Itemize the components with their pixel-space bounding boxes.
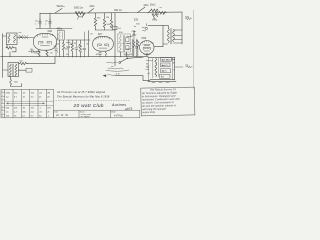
parts table bottom left	[1, 89, 54, 118]
wire left AVC drop 2	[49, 13, 51, 29]
capacitor C8 padder	[55, 44, 60, 57]
table col 1	[12, 89, 14, 118]
capacitor C6 tuning gang	[25, 36, 29, 40]
resistor R11b	[105, 51, 107, 56]
speaker enclosure left	[147, 57, 149, 81]
node SW1 contact	[127, 58, 128, 59]
svg-text:output total.: output total.	[142, 111, 156, 114]
capacitor C2 trimmer	[49, 19, 52, 27]
wire plate B line	[148, 26, 168, 47]
inductor T1 secondary	[15, 64, 17, 76]
label 6.3v squiggle	[108, 74, 115, 77]
svg-text:390Ω: 390Ω	[152, 19, 158, 21]
svg-text:456kc: 456kc	[57, 28, 64, 30]
resistor R12b	[79, 40, 81, 57]
svg-text:50kΩ1w: 50kΩ1w	[57, 5, 66, 8]
wire mains left	[3, 57, 9, 78]
antenna coil L1 box	[7, 33, 18, 45]
table frame	[1, 89, 54, 118]
note box frame	[141, 87, 195, 116]
capacitor if2 trimmer bottom	[126, 46, 129, 50]
tube V3 pins	[143, 41, 151, 44]
node grid cap V3	[142, 24, 148, 32]
transformer T-if2 dashed box	[118, 34, 131, 52]
capacitor C15 block	[161, 63, 171, 67]
note underline	[56, 100, 131, 102]
wire speaker to R16	[175, 66, 183, 68]
svg-text:3: 3	[2, 98, 3, 100]
wire ant to coil	[3, 35, 7, 37]
resistor R11 osc	[62, 43, 64, 57]
transformer T2 secondary	[173, 30, 175, 42]
svg-text:2M: 2M	[106, 17, 109, 19]
transformer if2 core	[123, 36, 124, 52]
ground speaker ticks	[152, 82, 169, 84]
wire screen node	[96, 29, 116, 31]
svg-text:Model: Model	[111, 111, 116, 113]
resistor R12	[71, 40, 73, 57]
wire if2 right taps	[126, 37, 130, 50]
wire coil bottom to R8	[7, 45, 16, 57]
tube V1 grid structure	[39, 37, 52, 46]
capacitor C12 det	[133, 31, 138, 41]
capacitor C17 block	[160, 74, 171, 78]
wire rail to right corner	[181, 12, 183, 44]
svg-text:6.3v: 6.3v	[116, 74, 120, 76]
inductor if2 bottom	[120, 45, 122, 52]
wire grid bus	[36, 28, 72, 30]
capacitor C11	[99, 51, 102, 56]
title strip div 1	[78, 110, 80, 118]
svg-text:6: 6	[2, 109, 3, 111]
svg-text:8mf: 8mf	[161, 76, 164, 78]
svg-text:hum: hum	[146, 69, 150, 71]
wire speaker right bus	[172, 57, 175, 80]
wire T2 top feed	[163, 26, 168, 29]
resistor R9 under V1	[38, 50, 40, 56]
inductor osc core	[61, 32, 63, 39]
table col 5	[45, 89, 47, 118]
wire plate to output	[154, 46, 163, 48]
resistor R1 on rail	[75, 11, 85, 14]
service note box right	[141, 87, 195, 116]
inductor osc primary	[59, 32, 61, 39]
resistor R14 det	[137, 40, 139, 56]
resistor R3	[103, 13, 105, 30]
wire center vertical bus	[114, 13, 116, 66]
table col 2	[20, 89, 22, 118]
wire speaker bottom	[148, 80, 176, 82]
resistor R7 speaker tap	[186, 18, 192, 20]
capacitor C5 tuning gang	[18, 35, 24, 39]
tube V2 pins	[96, 36, 109, 39]
node junction dots	[10, 51, 127, 56]
svg-text:6K7: 6K7	[98, 33, 103, 36]
ground bus main	[1, 56, 149, 58]
transformer T2 core	[171, 29, 172, 45]
capacitor C4	[113, 27, 118, 30]
label 6.3vac squiggle	[107, 62, 118, 63]
wire heater step	[27, 57, 55, 64]
svg-text:50Ω: 50Ω	[185, 16, 189, 18]
svg-text:240v: 240v	[144, 5, 150, 7]
capacitor C16 block	[161, 69, 171, 73]
wire left AVC drop 1	[39, 13, 41, 29]
capacitor C13	[144, 53, 150, 56]
speaker assembly top	[148, 56, 175, 58]
svg-text:4973: 4973	[125, 107, 133, 112]
border frame right	[193, 10, 195, 89]
svg-text:2: 2	[2, 95, 3, 97]
svg-text:300Ω 1w: 300Ω 1w	[74, 7, 83, 9]
title strip div 2	[109, 110, 111, 118]
tube V3 6N6 envelope	[140, 41, 154, 55]
svg-text:6Ω: 6Ω	[20, 61, 23, 63]
node arrow 6.3v	[103, 75, 106, 77]
inductor L-hum	[10, 77, 22, 87]
label switch squiggle	[106, 68, 129, 71]
inductor T1 primary	[10, 64, 12, 76]
transformer T2 primary	[167, 29, 169, 43]
resistor R10 under V1	[46, 50, 48, 56]
resistor R6 divider	[159, 11, 167, 14]
transformer T-osc box	[58, 31, 65, 41]
wire coil to grid	[17, 37, 34, 39]
wire B+ rail top	[40, 12, 182, 13]
wire divider taps	[148, 11, 165, 18]
wire pilot line	[115, 76, 151, 81]
capacitor C9	[66, 40, 70, 57]
svg-text:8: 8	[2, 116, 3, 118]
inductor if2 top	[120, 36, 122, 43]
capacitor if2 trimmer top	[126, 38, 129, 42]
transformer T1 box	[8, 63, 19, 77]
svg-text:240v: 240v	[90, 6, 96, 8]
node callout 240v	[88, 9, 94, 14]
speaker inner vertical	[152, 59, 154, 79]
speaker right inner vertical	[172, 58, 174, 80]
svg-text:20 watt Club: 20 watt Club	[73, 103, 104, 109]
resistor R17 av	[132, 39, 134, 56]
capacitor C10	[75, 40, 78, 57]
wire det top	[130, 32, 135, 37]
svg-text:8mf 450: 8mf 450	[162, 59, 169, 61]
resistor R16 right tick	[186, 66, 193, 68]
transformer if2 mid line	[118, 42, 131, 44]
resistor R4	[110, 13, 112, 28]
svg-text:Aucines: Aucines	[111, 103, 126, 107]
svg-text:1: 1	[2, 91, 3, 93]
schematic text labels	[14, 5, 190, 84]
capacitor C3 bypass arc	[76, 13, 85, 18]
label speaker callout	[146, 59, 153, 62]
wire leg x88	[87, 31, 89, 57]
tube V3 grid structure	[143, 45, 150, 51]
capacitor C1 trimmer	[39, 19, 42, 27]
wire if2 legs	[120, 52, 126, 57]
table row line lower	[5, 104, 54, 106]
capacitor C10b	[83, 32, 86, 57]
svg-text:30Ω 1w: 30Ω 1w	[114, 10, 122, 12]
svg-text:50kΩ: 50kΩ	[150, 5, 156, 7]
svg-text:6N6: 6N6	[142, 37, 147, 40]
resistor R15 heater	[19, 62, 28, 64]
resistor R8 cathode left	[6, 47, 16, 50]
speaker core line	[157, 59, 159, 77]
inductor L1 secondary	[14, 35, 16, 43]
wire C7 to tube	[36, 50, 40, 52]
svg-text:1M: 1M	[129, 54, 132, 56]
wire osc legs	[59, 40, 63, 57]
wire switch to speaker	[128, 57, 143, 58]
svg-text:4: 4	[2, 102, 3, 104]
switch SW-plug box	[26, 68, 32, 72]
svg-text:24 · 10 · 39: 24 · 10 · 39	[55, 114, 68, 117]
svg-text:7: 7	[2, 113, 3, 115]
node arrow tap	[154, 17, 156, 19]
svg-text:2M: 2M	[73, 43, 76, 45]
inductor field coil	[155, 59, 157, 77]
node callout 50k	[55, 9, 62, 14]
node callout 240v right	[138, 7, 146, 13]
wire plug	[19, 69, 27, 71]
svg-text:6A8: 6A8	[48, 30, 53, 33]
switch SW1	[119, 59, 127, 64]
title strip frame	[54, 110, 140, 118]
svg-text:4 67½a: 4 67½a	[114, 113, 123, 117]
tube V1 pins	[38, 33, 53, 36]
svg-text:8mf 450: 8mf 450	[162, 65, 169, 67]
svg-text:osc: osc	[19, 32, 22, 34]
svg-text:E30: E30	[134, 20, 139, 22]
wire T2 taps	[174, 30, 182, 43]
tube V2 6K7 envelope	[93, 36, 114, 51]
svg-text:All Trimmers set at 25 T 600kc: All Trimmers set at 25 T 600kc aligned	[56, 91, 106, 94]
svg-text:rev. aligned: rev. aligned	[81, 116, 91, 118]
svg-text:fld: fld	[146, 63, 148, 65]
title block centre	[56, 91, 133, 111]
capacitor C14 block	[161, 58, 172, 62]
table col 4	[37, 89, 39, 118]
svg-text:50k: 50k	[65, 48, 68, 50]
svg-text:2M: 2M	[47, 92, 50, 94]
resistor R5b divider lower	[152, 13, 159, 15]
capacitor C18 coup	[135, 39, 138, 57]
svg-text:14Ω: 14Ω	[14, 82, 18, 84]
wire mid coupling	[67, 39, 91, 41]
svg-text:5: 5	[2, 106, 3, 108]
tube V2 grid structure	[98, 44, 109, 48]
capacitor C7 05	[29, 50, 37, 53]
table row line upper	[5, 100, 54, 102]
resistor R13 det	[133, 40, 135, 56]
table index rows	[1, 93, 5, 115]
svg-text:The Special Maximum for Mar Ma: The Special Maximum for Mar Mar 8 1938	[57, 96, 110, 99]
inductor L1 primary	[8, 35, 10, 43]
transformer T1 core	[12, 64, 15, 76]
resistor R2 screen	[94, 13, 96, 30]
antenna lead wire	[2, 34, 4, 58]
label filter arrow	[146, 66, 149, 68]
table col index	[4, 89, 6, 118]
resistor R5 divider	[151, 9, 159, 12]
table col 3	[29, 89, 31, 118]
tube V1 6A8 envelope	[33, 33, 56, 50]
svg-text:dry 25: dry 25	[162, 71, 167, 73]
table arrow row	[7, 103, 45, 104]
